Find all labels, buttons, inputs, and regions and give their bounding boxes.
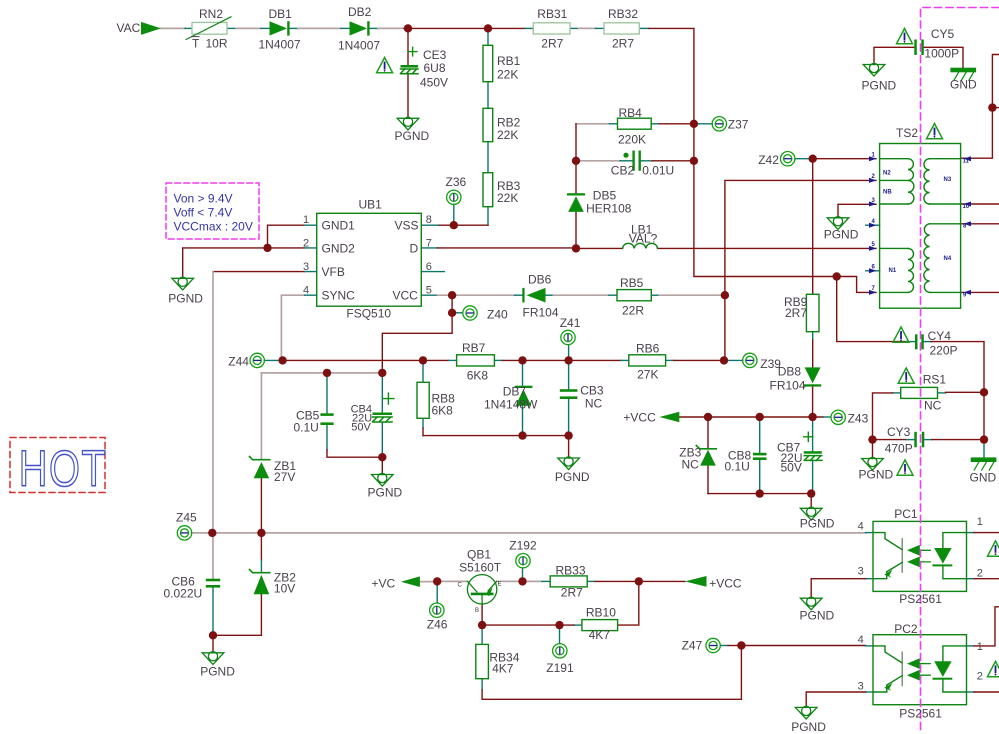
svg-text:Z41: Z41 [560,316,581,330]
junction 576,160.8 [572,157,580,165]
wire Z41 stem and CB3 leads [568,345,570,436]
svg-text:GND1: GND1 [322,219,356,233]
test point Z192 [516,554,530,568]
svg-text:HOT: HOT [19,440,108,497]
wire DB5 leads [575,161,577,249]
svg-text:10V: 10V [274,582,295,596]
wire VCC net down to CB4 rail [382,313,452,373]
zener ZB3 NC [700,450,716,466]
svg-text:6K8: 6K8 [467,368,489,382]
wire DB7 leads [522,360,524,435]
diode DB8 FR104 [804,367,821,386]
svg-text:3: 3 [858,566,864,578]
svg-text:HER108: HER108 [586,202,632,216]
svg-text:VFB: VFB [322,265,345,279]
test point Z39 [743,353,757,367]
junction 812.6,417 [808,413,816,421]
resistor RB10 [582,620,618,631]
svg-text:6K8: 6K8 [432,404,454,418]
wire RB7 to RB6 [494,359,502,361]
svg-text:5: 5 [426,285,432,297]
resistor RB2 [483,108,493,141]
svg-text:PS2561: PS2561 [899,592,942,606]
ground PGND at CY3 [862,457,884,470]
svg-text:D: D [410,241,419,255]
svg-text:1: 1 [977,516,983,528]
svg-text:VCCmax : 20V: VCCmax : 20V [174,220,253,234]
wire DB1 to DB2 [289,27,298,29]
wire +VCC rail [679,416,823,418]
capacitor CB8 0.1U [753,453,767,456]
power arrow +VCC at RB33 [685,576,707,587]
svg-text:PS2561: PS2561 [899,706,942,720]
svg-text:FR104: FR104 [770,379,806,393]
svg-text:2R7: 2R7 [612,36,634,50]
svg-text:RB1: RB1 [497,54,521,68]
svg-text:220P: 220P [930,344,958,358]
junction 267.5,247.9 [263,244,271,252]
wire RB31 to RB32 [570,27,579,29]
svg-text:Z45: Z45 [176,510,197,524]
warning triangle at CY4 [893,327,909,342]
svg-text:+VCC: +VCC [709,577,742,591]
junction 522.5,581.4 [518,577,526,585]
junction 693.9,160.8 [690,157,698,165]
svg-text:+VC: +VC [372,576,396,590]
svg-text:0.01U: 0.01U [642,163,674,177]
junction 261.4,532.9 [257,529,265,537]
wire DB8 to VCC rail [812,385,814,417]
resistor RB6 [629,355,666,366]
junction 759.7,417 [756,413,764,421]
svg-text:Z191: Z191 [546,661,574,675]
wire CB4 leads [381,373,383,457]
wire RB5 to x725 riser [651,294,659,296]
wire TS2 pin9 out [961,291,999,293]
resistor RB9 [806,294,819,331]
wire RB4 right to Z37 node [651,123,659,125]
ground PGND at UB1 pin2 [172,277,194,290]
junction 212.3,532.9 [208,529,216,537]
junction 453.8,225.2 [450,221,458,229]
svg-text:PGND: PGND [800,517,835,531]
ground PGND at CB4 [372,473,394,486]
svg-text:GND: GND [970,470,997,484]
svg-text:50V: 50V [351,422,371,434]
isolation barrier magenta dashed [921,8,999,734]
wire TS2 pin3 to PGND [838,204,876,218]
warning triangle below CY3 [897,460,913,475]
svg-text:0.022U: 0.022U [164,586,203,600]
svg-text:3: 3 [858,680,864,692]
capacitor CY4 220P [915,334,918,349]
wire CB8 leads [759,417,761,494]
svg-text:RS1: RS1 [923,373,947,387]
wire CE3 branch [407,28,409,65]
svg-text:N3: N3 [944,177,952,183]
svg-text:3: 3 [303,261,309,273]
wire Z42 stem and TS2 pin1 [795,158,813,160]
wire HV bus top [408,27,525,29]
wire right edge riser to TS2 pin11 [961,55,999,159]
wire RB4 corner [576,123,610,125]
svg-text:Z42: Z42 [758,153,779,167]
junction 382.3,457.2 [378,453,386,461]
wire CB7 leads [812,417,814,494]
capacitor CB6 0.022U [206,579,220,582]
resistor RB32 [604,23,639,34]
resistor RB31 [533,23,570,34]
wire VCC to DB6 [452,294,514,296]
svg-text:22K: 22K [497,68,518,82]
svg-text:DB8: DB8 [778,365,802,379]
wire ZB1 ZB2 node [260,533,262,560]
IC UB1 FSQ510 [317,213,422,306]
TS2 pin arrows [869,156,971,295]
wire CY3 right [924,439,932,441]
svg-text:DB6: DB6 [528,272,552,286]
svg-text:22R: 22R [622,304,644,318]
svg-text:10R: 10R [206,37,228,51]
wire Z47 node to PC2 pin4 [741,645,865,647]
wire pin5 VCC [421,294,437,296]
power arrow VAC [141,22,161,35]
wire Z44 stem [264,359,282,361]
test point Z40 [463,306,477,320]
junction 213,635.3 [209,631,217,639]
zener ZB2 10V [254,575,270,595]
svg-text:8: 8 [426,214,432,226]
junction 488,28.4 [484,24,492,32]
svg-text:2R7: 2R7 [785,306,807,320]
wire pin6 stub [421,271,444,273]
junction 992.4,107.6 [988,103,996,111]
wire QB1 emitter to Z192 node [497,580,523,582]
svg-text:11: 11 [963,159,970,165]
junction 423,360.4 [419,356,427,364]
capacitor CB7 22U 50V polarized [804,451,822,454]
junction 812.7,158.7 [809,155,817,163]
capacitor CB4 22U 50V polarized [373,413,393,416]
svg-text:CE3: CE3 [423,48,447,62]
wire +VCC node down RB10 [618,581,639,625]
wire VAC to RN2 [160,27,185,29]
svg-text:450V: 450V [420,76,448,90]
svg-text:GND2: GND2 [322,241,356,255]
warning triangle at CY5 [897,29,913,44]
wire TS2 pin4 stub [866,224,880,226]
wire pin2 GND2 to PGND [183,248,305,278]
junction 437.2,581.4 [433,577,441,585]
svg-text:RN2: RN2 [199,7,223,21]
svg-text:Von > 9.4V: Von > 9.4V [174,192,233,206]
junction 522.5,435.6 [518,431,526,439]
svg-text:PGND: PGND [168,291,203,305]
svg-text:4: 4 [858,521,864,533]
resistor RB4 [618,118,652,129]
svg-text:1N4007: 1N4007 [259,38,301,52]
wire QB1 collector [437,580,467,582]
diode DB5 HER108 [567,193,585,212]
wire CY3 left [873,439,907,441]
svg-text:VAC: VAC [117,21,141,35]
junction 408,28.4 [404,24,412,32]
wire PC2 pin3 to PGND [866,691,873,693]
wire pin1 GND1 [268,225,305,248]
svg-text:+VCC: +VCC [623,411,656,425]
transformer TS2 [880,144,961,309]
svg-text:4K7: 4K7 [492,661,514,675]
svg-text:2: 2 [977,567,983,579]
svg-text:DB2: DB2 [348,5,372,19]
svg-text:CY4: CY4 [928,329,952,343]
wire VFB vertical grey [212,272,214,579]
wire grey rail CB5 CB4 [261,372,382,374]
svg-text:VAL?: VAL? [629,232,658,246]
test point Z45 [177,526,191,540]
junction 984,392.3 [980,388,988,396]
svg-text:TS2: TS2 [896,126,918,140]
svg-text:C: C [458,583,463,589]
junction 724.9,295.2 [721,291,729,299]
svg-text:RB32: RB32 [608,7,638,21]
capacitor CB3 NC [560,389,578,392]
capacitor CY5 1000P [914,40,917,56]
optocoupler PC1 PS2561 [873,521,967,591]
svg-text:CY5: CY5 [931,27,955,41]
wire PC2 pin1 from right edge [967,645,975,647]
capacitor CB2 0.01U [632,151,634,171]
ground PGND at PC1 pin3 [800,597,822,610]
svg-text:Z44: Z44 [228,355,249,369]
svg-text:PGND: PGND [555,470,590,484]
junction 576,248.4 [572,244,580,252]
wire RB33 to +VCC node [587,580,595,582]
svg-text:1: 1 [977,641,983,653]
wire TS2 pin10 out [961,203,999,205]
svg-text:10: 10 [963,204,970,210]
svg-text:PGND: PGND [791,720,826,734]
svg-text:0.1U: 0.1U [725,460,750,474]
junction 811.2,493.6 [807,489,815,497]
svg-text:220K: 220K [618,132,646,146]
wire CB6 leads [212,587,214,635]
wire RS1 left [893,392,901,394]
svg-text:RB10: RB10 [586,605,616,619]
wire RB1-RB2-RB3 chain [487,28,489,225]
svg-text:6: 6 [426,261,432,273]
svg-text:SYNC: SYNC [322,289,356,303]
resistor RB8 [417,382,429,418]
svg-text:PGND: PGND [395,129,430,143]
wire CB2 left [576,160,620,162]
test point Z44 [250,353,264,367]
wire right edge stub [992,107,999,109]
resistor RB34 [476,644,489,678]
capacitor CB5 0.1U [320,413,333,416]
svg-text:E: E [498,582,502,588]
svg-text:RB4: RB4 [619,106,643,120]
test point Z191 [553,644,567,658]
wire Z45 stem [192,532,213,534]
wire Z47 stem [720,645,728,647]
svg-text:1000P: 1000P [924,46,959,60]
svg-text:B: B [475,608,479,614]
wire TS2 pin6 stub [866,270,880,272]
junction 452.1,295.2 [448,291,456,299]
wire Z40 branch [451,295,453,313]
wire CB6 PGND [212,635,214,653]
svg-text:1N4007: 1N4007 [338,39,380,53]
wire Z192 stem [522,568,524,581]
svg-text:NC: NC [924,398,942,412]
junction 741.4,645.5 [737,641,745,649]
svg-text:RB6: RB6 [636,342,660,356]
wire RB34 leads [481,625,483,690]
wire RB9 to DB8 [812,332,814,340]
junction 482.1,625.1 [478,621,486,629]
wire Z36 stem [453,204,455,225]
diode DB2 1N4007 [350,21,370,35]
junction 724,360.4 [720,356,728,364]
test point Z37 [712,117,726,131]
junction 559.5,625.1 [555,621,563,629]
svg-text:Z37: Z37 [728,118,749,132]
wire D net to LB1 and TS2 pin5 [576,247,876,249]
resistor RB33 [550,576,587,587]
warning triangle at TS2 [927,124,943,139]
junction 327,372.9 [323,369,331,377]
power arrow +VC [401,576,420,587]
note box Von Voff VCCmax [166,183,259,239]
transistor QB1 S5160T [467,575,496,604]
wire RB10 left [574,624,582,626]
ground PGND at PC2 pin3 [795,706,817,719]
wire VSS pin8 [438,224,488,226]
ground GND chassis at CY5 [951,68,976,80]
wire QB1 base [481,604,483,625]
resistor RS1 [901,387,938,398]
wire RB8 leads [422,360,424,428]
thermistor RN2 [192,22,227,34]
svg-text:2R7: 2R7 [541,36,563,50]
svg-text:RB31: RB31 [537,7,567,21]
inductor LB1 VAL? [623,243,658,248]
svg-text:50V: 50V [781,461,802,475]
diode DB7 1N4148W [515,386,533,406]
svg-text:1N4148W: 1N4148W [484,397,538,411]
svg-text:DB1: DB1 [269,7,293,21]
junction 568.6,360.4 [564,356,572,364]
svg-text:FR104: FR104 [523,306,559,320]
diode DB6 FR104 [522,288,545,303]
svg-text:Voff < 7.4V: Voff < 7.4V [174,206,233,220]
svg-text:Z47: Z47 [682,639,703,653]
warning triangle at RS1 [898,368,914,383]
resistor RB5 [617,290,651,301]
svg-text:27V: 27V [274,470,295,484]
wire bottom feedback rail [482,646,741,700]
ground PGND at DB7 rail [558,457,580,470]
resistor RB3 [483,173,493,207]
wire PC1 pin2 out [967,578,975,580]
svg-text:S5160T: S5160T [459,561,502,575]
wire RB6 to Z39 [666,359,674,361]
svg-text:PC2: PC2 [894,622,918,636]
HOT label box [10,438,105,493]
ground PGND at CE3 [397,117,419,130]
svg-text:Z36: Z36 [446,175,467,189]
wire PGND rail under caps [708,494,811,509]
wire CY4 right to GND riser [924,341,931,343]
svg-text:VSS: VSS [395,219,419,233]
svg-text:4K7: 4K7 [589,628,611,642]
test points Z36..Z192 [177,117,845,658]
svg-text:4: 4 [858,634,864,646]
diode DB1 1N4007 [270,21,290,35]
wire RB32 to corner, down to pin6 net [639,27,649,29]
junction 382.3,372.9 [378,369,386,377]
resistor RB7 [457,355,495,366]
svg-text:4: 4 [303,285,309,297]
svg-text:PGND: PGND [859,467,894,481]
junction 522.5,360.4 [518,356,526,364]
ground PGND at CY5 [863,63,885,76]
svg-text:2: 2 [977,670,983,682]
svg-text:PGND: PGND [368,485,403,499]
wire CB2 right [641,160,652,162]
test point Z47 [706,638,720,652]
svg-text:470P: 470P [885,441,913,455]
svg-text:N2: N2 [883,171,891,177]
ground PGND at CB6 [202,652,224,665]
wire bottom rail to PGND [423,436,569,458]
test point Z41 [561,330,575,344]
ground PGND at TS2 pin3 [827,217,849,230]
zener ZB1 27V [254,462,270,478]
svg-text:NC: NC [585,396,603,410]
optocoupler PC2 PS2561 [873,635,967,705]
svg-text:PGND: PGND [800,608,835,622]
UB1 pin stubs [305,225,317,295]
svg-text:DB5: DB5 [593,189,617,203]
svg-text:PGND: PGND [200,664,235,678]
svg-text:CB2: CB2 [611,163,635,177]
wire pin4 SYNC [281,295,304,360]
wire PC1 pin3 to PGND [866,578,873,580]
svg-text:27K: 27K [637,367,658,381]
wire DB2 to node HV [369,27,378,29]
svg-text:N1: N1 [889,268,897,274]
svg-text:0.1U: 0.1U [294,420,319,434]
svg-text:NC: NC [682,457,700,471]
resistor RB1 [483,45,493,81]
wire pin3 VFB [213,271,305,273]
svg-text:NB: NB [883,190,892,196]
power arrow +VCC at ZB3 rail [660,412,680,423]
svg-text:PGND: PGND [862,79,897,93]
svg-text:7: 7 [426,237,432,249]
svg-text:1: 1 [303,214,309,226]
svg-text:PC1: PC1 [894,507,918,521]
wire DB6 to RB5 [546,294,554,296]
wire CB5 leads [326,373,328,450]
svg-text:RB33: RB33 [556,563,586,577]
warning triangle at PC1 [988,541,999,556]
capacitor CE3 6U8 450V polarized [401,65,419,68]
ground PGND symbols [172,63,885,719]
wire Z191 stem [559,625,561,644]
